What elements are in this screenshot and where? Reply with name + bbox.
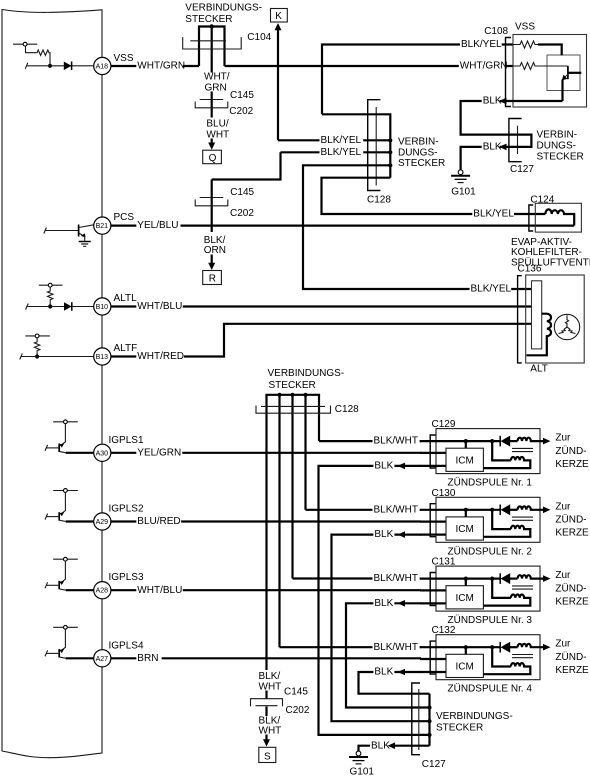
ignition coil unit C130 <box>420 497 589 542</box>
diode at A18 <box>64 62 72 71</box>
wire BLK from C127 to G101 <box>461 142 518 170</box>
svg-text:C108: C108 <box>484 26 508 37</box>
svg-text:BLK/YEL: BLK/YEL <box>461 39 502 50</box>
pin circle A28 <box>94 582 111 599</box>
svg-text:STECKER: STECKER <box>398 158 445 169</box>
wire C128 bus <box>322 114 392 177</box>
svg-text:C128: C128 <box>367 195 391 206</box>
wire IGPLS4 BRN from A27 to C132 <box>111 653 421 663</box>
svg-text:ZÜNDSPULE Nr. 2: ZÜNDSPULE Nr. 2 <box>448 545 533 557</box>
svg-text:ALT: ALT <box>530 364 548 375</box>
svg-text:C128: C128 <box>335 404 359 415</box>
ECM internal transistor at A27 <box>45 625 94 658</box>
svg-text:YEL/GRN: YEL/GRN <box>137 447 181 458</box>
arrow on ground wire <box>388 742 396 749</box>
alternator field coil <box>527 314 552 356</box>
connector C127 (top) <box>509 119 522 162</box>
alternator 3-phase symbol <box>554 314 579 339</box>
svg-text:WHT/GRN: WHT/GRN <box>137 61 185 72</box>
pin circle A18 <box>94 57 111 74</box>
connector C127 (bottom) bracket <box>412 683 420 755</box>
svg-text:WHT/BLU: WHT/BLU <box>137 301 182 312</box>
arrow on BLK wire <box>499 98 507 105</box>
svg-text:B13: B13 <box>96 354 109 361</box>
svg-text:STECKER: STECKER <box>537 152 584 163</box>
svg-text:GRN: GRN <box>205 83 227 94</box>
svg-text:WHT: WHT <box>206 129 229 140</box>
wire BLK/WHT to C131 <box>293 574 422 584</box>
svg-text:PCS: PCS <box>114 212 135 223</box>
wire ALTL WHT/BLU from B10 to C136 <box>111 302 532 312</box>
wire BLK/WHT to C132 <box>280 642 422 652</box>
svg-text:STECKER: STECKER <box>436 723 483 734</box>
wire BLK/YEL to C136 <box>303 165 532 294</box>
wire BLK from C129 to C127 <box>319 461 430 735</box>
wire BLK from C132 to C127 <box>359 667 430 694</box>
svg-text:ZÜNDSPULE Nr. 1: ZÜNDSPULE Nr. 1 <box>448 477 533 489</box>
arrow on BLK wire C132 <box>398 669 406 676</box>
wire ALTF WHT/RED from B13 to C136 <box>111 324 532 362</box>
connector C145/C202 (top) <box>195 100 228 108</box>
svg-text:A18: A18 <box>96 64 109 71</box>
svg-text:BLK/WHT: BLK/WHT <box>374 504 418 515</box>
svg-text:VSS: VSS <box>515 22 535 33</box>
svg-text:B10: B10 <box>96 304 109 311</box>
connector C108 bracket <box>506 38 512 107</box>
wire IGPLS3 WHT/BLU from A28 to C131 <box>111 585 421 595</box>
ECM internal transistor at A28 <box>45 557 94 590</box>
wire BLK from VSS to G101/C127 <box>461 96 563 135</box>
terminal box K <box>271 9 288 23</box>
svg-text:C104: C104 <box>247 32 271 43</box>
svg-text:C124: C124 <box>530 195 554 206</box>
pin circle B13 <box>94 348 111 365</box>
svg-text:VERBINDUNGS-: VERBINDUNGS- <box>268 368 345 379</box>
svg-text:BLK/: BLK/ <box>259 671 281 682</box>
wire stem to C145 <box>211 92 213 118</box>
svg-text:STECKER: STECKER <box>185 14 232 25</box>
svg-text:BLK/YEL: BLK/YEL <box>473 209 514 220</box>
svg-text:C145: C145 <box>230 187 254 198</box>
svg-text:YEL/BLU: YEL/BLU <box>137 220 178 231</box>
EVAP valve C124 <box>529 203 581 232</box>
svg-text:C136: C136 <box>518 263 542 274</box>
wire IGPLS1 YEL/GRN from A30 to C129 <box>111 448 421 458</box>
svg-text:A29: A29 <box>96 519 109 526</box>
wire PCS YEL/BLU from B21 to C124 <box>111 221 574 231</box>
ECM/PCM box (left, torn edges) <box>2 10 102 758</box>
wire arrow into S <box>263 735 270 747</box>
ECM internal transistor at B21 <box>44 225 94 247</box>
svg-text:DUNGS-: DUNGS- <box>398 147 437 158</box>
terminal box R <box>203 271 222 285</box>
connector C104 splice legs <box>198 24 226 72</box>
pin circle A29 <box>94 513 111 530</box>
ignition coil unit C129 <box>420 429 589 474</box>
arrow on BLK wire C130 <box>398 531 406 538</box>
ignition coil unit C132 <box>420 635 589 680</box>
svg-text:IGPLS1: IGPLS1 <box>109 435 144 446</box>
connector C128 (top) bracket <box>368 100 381 191</box>
resistor in VSS (middle) <box>513 63 538 70</box>
svg-text:BLK/YEL: BLK/YEL <box>321 135 362 146</box>
svg-text:VERBINDUNGS-: VERBINDUNGS- <box>185 3 262 14</box>
ECM internal circuit at B13 (resistor) <box>20 334 94 360</box>
pin circle B10 <box>94 298 111 315</box>
pin circle A27 <box>94 650 111 667</box>
svg-text:STECKER: STECKER <box>269 380 316 391</box>
svg-text:ALTF: ALTF <box>114 343 138 354</box>
svg-text:BLK: BLK <box>483 96 502 107</box>
wire stem into C145 (bottom) <box>265 691 267 699</box>
wire arrow into R <box>208 255 215 271</box>
svg-text:BLK: BLK <box>371 740 390 751</box>
ECM internal circuit at A18 (resistor, diode) <box>13 42 94 69</box>
wire BLK/YEL top to C108 <box>322 40 513 115</box>
connector C145/C202 (bottom) <box>251 699 283 707</box>
wire arrow into Q <box>208 139 215 150</box>
svg-text:G101: G101 <box>451 187 476 198</box>
terminal box Q <box>203 150 222 164</box>
ground G101 (top) <box>451 170 470 183</box>
svg-text:K: K <box>275 11 282 22</box>
svg-text:ZÜNDSPULE Nr. 3: ZÜNDSPULE Nr. 3 <box>448 614 533 626</box>
svg-text:BRN: BRN <box>137 653 158 664</box>
svg-text:R: R <box>209 274 216 285</box>
svg-text:BLK: BLK <box>374 529 393 540</box>
arrow on BLK wire C131 <box>398 600 406 607</box>
wire BLK to ground G101 (bottom) <box>359 741 430 751</box>
svg-text:G101: G101 <box>350 767 375 778</box>
svg-text:WHT: WHT <box>259 726 282 737</box>
wire BLK from C131 to C127 <box>346 598 430 707</box>
connector C128 (bottom) symbol <box>256 406 331 414</box>
wire arrow up to K <box>275 23 282 140</box>
svg-text:BLK/WHT: BLK/WHT <box>374 573 418 584</box>
wire BLK/YEL row2 to C145 and R <box>212 147 391 179</box>
svg-text:VERBIN-: VERBIN- <box>537 130 578 141</box>
wire BLK/YEL row1 to C128 bus <box>278 135 390 145</box>
svg-text:BLK/YEL: BLK/YEL <box>471 284 512 295</box>
svg-text:C145: C145 <box>284 687 308 698</box>
wire IGPLS2 BLU/RED from A29 to C130 <box>111 517 421 527</box>
wire C128 leg 3 <box>291 395 293 579</box>
wire stem below connector <box>265 707 267 717</box>
svg-text:Q: Q <box>209 153 217 164</box>
connector C104 symbol <box>183 37 242 49</box>
svg-text:BLK: BLK <box>374 598 393 609</box>
wire BLK/WHT to C129 <box>319 436 421 446</box>
svg-text:BLK: BLK <box>374 667 393 678</box>
svg-text:C132: C132 <box>432 625 456 636</box>
svg-text:WHT/RED: WHT/RED <box>137 351 184 362</box>
svg-text:IGPLS2: IGPLS2 <box>109 504 144 515</box>
svg-text:A30: A30 <box>96 450 109 457</box>
ECM internal transistor at A29 <box>45 489 94 522</box>
svg-text:A28: A28 <box>96 588 109 595</box>
svg-text:WHT/BLU: WHT/BLU <box>137 585 182 596</box>
resistor in VSS (top) <box>513 41 538 48</box>
arrow on BLK wire <box>499 144 507 151</box>
svg-text:C130: C130 <box>432 488 456 499</box>
wire C128 leg 1 to C145 <box>265 395 267 670</box>
svg-text:BLU/: BLU/ <box>206 119 228 130</box>
transistor in VSS <box>538 66 581 101</box>
svg-text:C202: C202 <box>230 208 254 219</box>
svg-text:IGPLS3: IGPLS3 <box>109 572 144 583</box>
svg-text:B21: B21 <box>96 223 109 230</box>
wire C127 bus with junctions <box>427 694 431 746</box>
svg-text:VERBINDUNGS-: VERBINDUNGS- <box>436 711 513 722</box>
svg-text:BLK/WHT: BLK/WHT <box>374 642 418 653</box>
svg-text:VERBIN-: VERBIN- <box>398 137 439 148</box>
svg-text:C129: C129 <box>432 419 456 430</box>
svg-text:ZÜNDSPULE Nr. 4: ZÜNDSPULE Nr. 4 <box>448 683 533 695</box>
wire stem through C145 to R <box>211 180 213 233</box>
svg-text:BLK: BLK <box>483 142 502 153</box>
ECM internal circuit at B10 (resistor, diode) <box>26 283 94 309</box>
ground G101 (bottom) <box>349 751 368 764</box>
svg-text:BLU/RED: BLU/RED <box>137 516 180 527</box>
wire C128 leg 5 <box>318 395 320 441</box>
svg-text:WHT: WHT <box>259 682 282 693</box>
wire VSS internal top <box>538 45 562 56</box>
ignition coil unit C131 <box>420 566 589 611</box>
connector C128 (bottom) splice bar <box>265 393 320 397</box>
svg-text:C127: C127 <box>510 164 534 175</box>
pin circle A30 <box>94 444 111 461</box>
svg-text:IGPLS4: IGPLS4 <box>109 640 144 651</box>
svg-text:VSS: VSS <box>114 53 134 64</box>
pin circle B21 <box>94 217 111 234</box>
svg-text:BLK: BLK <box>374 461 393 472</box>
wire BLK/YEL to C124 <box>322 178 546 219</box>
svg-text:S: S <box>264 751 271 762</box>
svg-text:C202: C202 <box>286 705 310 716</box>
svg-text:ORN: ORN <box>204 245 226 256</box>
terminal box S <box>259 747 276 762</box>
wire C127 jumper loop <box>518 135 532 147</box>
wire C128 leg 4 <box>304 395 306 510</box>
VSS sensor box C108 <box>513 35 587 108</box>
svg-text:C127: C127 <box>422 759 446 770</box>
arrow on BLK wire C129 <box>398 463 406 470</box>
svg-text:ALTL: ALTL <box>114 293 138 304</box>
svg-text:BLK/WHT: BLK/WHT <box>374 436 418 447</box>
connector C145/C202 (second) <box>195 198 228 206</box>
wire VSS WHT/GRN from A18 to C104 and C108 <box>111 61 513 71</box>
svg-text:DUNGS-: DUNGS- <box>537 141 576 152</box>
wire C128 leg 2 <box>278 395 280 647</box>
svg-text:C131: C131 <box>432 557 456 568</box>
svg-text:C145: C145 <box>230 90 254 101</box>
svg-text:WHT/: WHT/ <box>204 72 230 83</box>
svg-text:A27: A27 <box>96 656 109 663</box>
svg-text:BLK/YEL: BLK/YEL <box>321 147 362 158</box>
wire BLK from C130 to C127 <box>332 530 430 722</box>
wire BLK/WHT to C130 <box>306 505 422 515</box>
alternator box C136/ALT <box>518 275 585 363</box>
svg-text:WHT/GRN: WHT/GRN <box>460 61 508 72</box>
ECM internal transistor at A30 <box>45 420 94 453</box>
svg-text:C202: C202 <box>229 106 253 117</box>
diode at B10 <box>64 302 72 311</box>
